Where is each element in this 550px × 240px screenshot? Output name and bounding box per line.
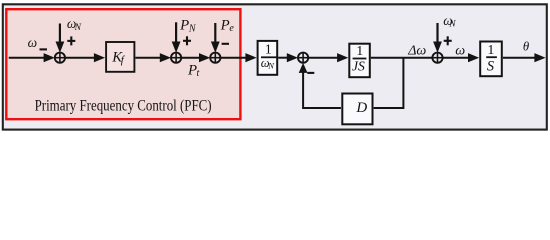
svg-text:1: 1 — [356, 44, 363, 59]
svg-text:P: P — [220, 17, 230, 33]
svg-text:S: S — [487, 59, 494, 75]
svg-text:Primary Frequency Control (PFC: Primary Frequency Control (PFC) — [35, 98, 212, 115]
svg-text:Δω: Δω — [407, 44, 426, 59]
svg-text:1: 1 — [487, 43, 494, 58]
svg-text:e: e — [229, 23, 234, 34]
svg-text:P: P — [179, 17, 189, 33]
svg-text:1: 1 — [265, 42, 272, 57]
svg-text:D: D — [355, 100, 367, 116]
svg-text:ω: ω — [28, 35, 37, 50]
svg-text:N: N — [188, 24, 197, 35]
svg-text:N: N — [74, 23, 82, 33]
svg-text:JS: JS — [352, 58, 365, 73]
svg-text:θ: θ — [523, 40, 529, 54]
svg-text:N: N — [448, 20, 456, 30]
svg-text:ω: ω — [455, 43, 465, 58]
svg-text:t: t — [197, 68, 200, 79]
